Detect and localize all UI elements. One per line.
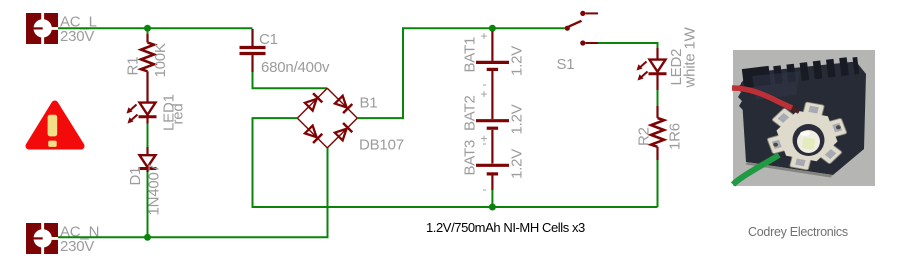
- wire R1 top stub: [147, 28, 149, 34]
- terminal pad AC_N: [26, 223, 58, 254]
- LED2 emission arrows: [637, 62, 648, 81]
- switch S1: [565, 11, 598, 46]
- svg-text:230V: 230V: [60, 238, 94, 255]
- heatsink bottom edge highlight: [746, 162, 834, 178]
- resistor R2: [651, 106, 664, 160]
- heatsink left edge serrations: [737, 84, 743, 110]
- svg-text:white 1W: white 1W: [682, 26, 699, 88]
- wire LED1 to D1: [147, 124, 149, 148]
- svg-text:B1: B1: [360, 95, 378, 112]
- red wire: [732, 88, 792, 108]
- battery BAT3: [476, 165, 509, 190]
- svg-text:BAT3: BAT3: [462, 140, 479, 176]
- wire D1 to bottom rail: [147, 172, 149, 237]
- wire AC_L to C1 (top rail left): [58, 27, 253, 29]
- solder pads on star: [763, 100, 851, 172]
- wire switch to LED2: [598, 43, 658, 48]
- junction dot battery bottom: [489, 204, 496, 211]
- capacitor C1: [240, 29, 266, 72]
- wire bridge right corner to top rail (DC+): [357, 28, 565, 118]
- svg-text:-: -: [483, 182, 487, 196]
- LED LED1: [139, 103, 157, 124]
- battery BAT1: [476, 31, 509, 119]
- bridge diode bottom-right: [334, 123, 352, 141]
- LED LED2: [649, 48, 667, 90]
- svg-text:+: +: [481, 87, 488, 101]
- svg-text:1.2V: 1.2V: [509, 149, 526, 179]
- svg-text:+: +: [481, 132, 488, 146]
- battery BAT2: [476, 121, 509, 164]
- heatsink top face sheen: [752, 71, 800, 100]
- bridge diode top-right: [334, 95, 352, 113]
- heatsink fins: [742, 55, 859, 88]
- wire C1 to bridge top: [253, 72, 328, 88]
- bridge B1 diamond edges: [297, 88, 357, 148]
- green wire: [733, 155, 779, 185]
- bridge diode bottom-left: [304, 125, 322, 143]
- svg-text:Codrey Electronics: Codrey Electronics: [748, 225, 848, 239]
- wire AC_N bottom rail: [58, 148, 328, 237]
- svg-text:+: +: [481, 29, 488, 43]
- terminal pad AC_L: [26, 13, 58, 44]
- photo of 1W LED on star PCB with heatsink: [732, 50, 875, 186]
- LED1 emission arrows: [127, 105, 138, 124]
- diode D1: [139, 147, 157, 172]
- svg-text:R2: R2: [636, 127, 653, 146]
- svg-text:1.2V/750mAh NI-MH Cells x3: 1.2V/750mAh NI-MH Cells x3: [426, 220, 585, 235]
- svg-text:red: red: [170, 103, 187, 124]
- wire bridge left corner to DC- rail: [253, 118, 658, 207]
- wire LED2 to R2: [657, 90, 659, 106]
- svg-text:680n/400v: 680n/400v: [261, 59, 330, 76]
- svg-text:1.2V: 1.2V: [509, 46, 526, 76]
- svg-text:BAT2: BAT2: [462, 95, 479, 131]
- wire R2 to DC- rail: [657, 160, 659, 207]
- svg-text:1R6: 1R6: [667, 123, 684, 150]
- bridge diode top-left: [304, 93, 322, 111]
- svg-text:D1: D1: [127, 167, 144, 186]
- svg-text:R1: R1: [125, 57, 142, 76]
- LED emitter: [793, 124, 825, 156]
- svg-text:DB107: DB107: [359, 137, 404, 154]
- screw holes: [773, 142, 779, 147]
- junction dot at R1 top: [144, 25, 151, 32]
- svg-text:1.2V: 1.2V: [509, 104, 526, 134]
- svg-text:C1: C1: [259, 31, 278, 48]
- wire BAT3 to DC- rail: [491, 190, 493, 207]
- svg-text:BAT1: BAT1: [462, 37, 479, 73]
- star PCB: [758, 95, 856, 178]
- warning triangle icon: [29, 104, 81, 147]
- junction dot battery top: [489, 25, 496, 32]
- svg-text:100K: 100K: [152, 43, 169, 77]
- heatsink body: [741, 62, 866, 176]
- resistor R1: [141, 34, 154, 102]
- junction dot at D1 bottom: [144, 234, 151, 241]
- svg-text:230V: 230V: [60, 28, 94, 45]
- svg-text:S1: S1: [557, 56, 575, 73]
